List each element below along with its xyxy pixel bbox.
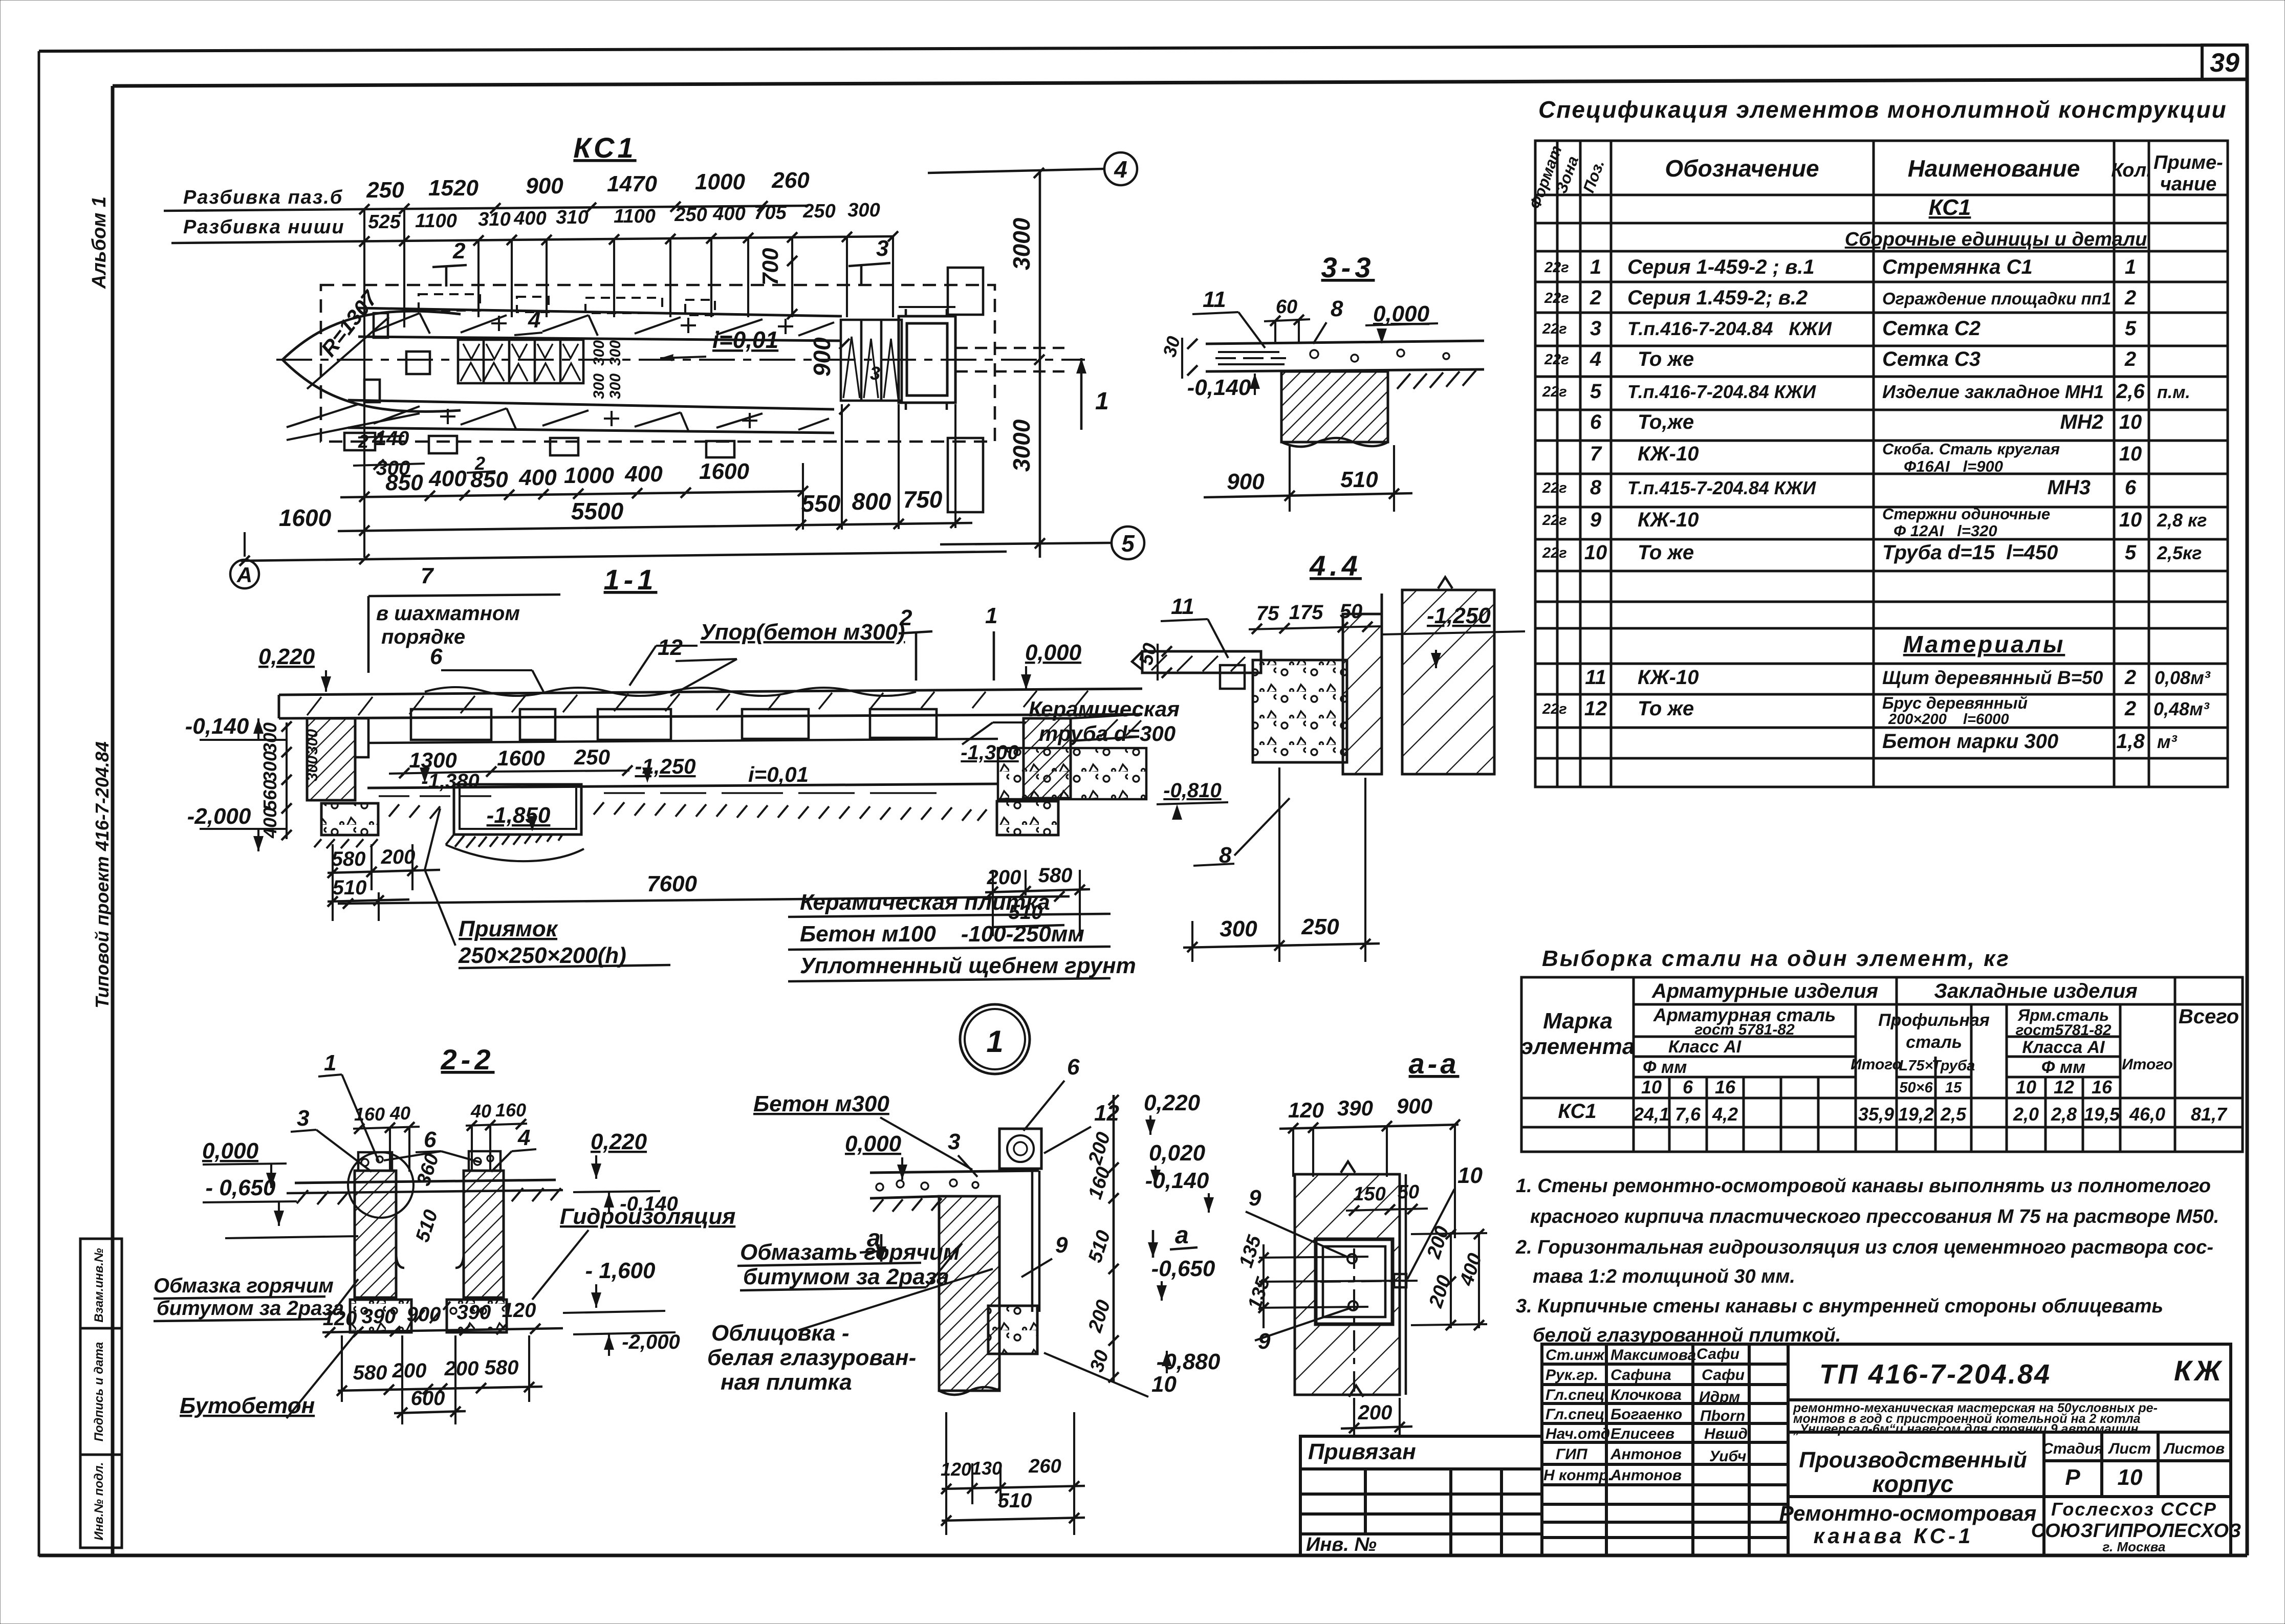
svg-text:-1,850: -1,850 — [487, 803, 551, 828]
formwork marks top band — [374, 313, 834, 336]
svg-text:300: 300 — [607, 374, 624, 399]
svg-text:Арматурные изделия: Арматурные изделия — [1651, 980, 1878, 1002]
svg-text:19,2: 19,2 — [1898, 1104, 1934, 1125]
svg-text:м³: м³ — [2157, 731, 2178, 752]
svg-text:300: 300 — [847, 200, 880, 221]
svg-text:Идрм: Идрм — [1699, 1389, 1740, 1406]
small square under bar — [1220, 665, 1245, 689]
ground hatch right of wall — [1397, 370, 1476, 389]
svg-text:10: 10 — [2118, 1465, 2143, 1490]
svg-text:0,000: 0,000 — [1025, 640, 1082, 665]
strip speckles — [1310, 349, 1449, 362]
svg-text:Производственный: Производственный — [1799, 1447, 2027, 1473]
privyazan box — [1300, 1436, 1542, 1555]
page number box 39 — [2202, 45, 2247, 79]
svg-text:300: 300 — [259, 722, 280, 753]
svg-text:4: 4 — [517, 1125, 530, 1150]
svg-text:битумом за 2раза: битумом за 2раза — [157, 1297, 344, 1320]
svg-text:г. Москва: г. Москва — [2103, 1539, 2166, 1554]
extension verticals for lower dims — [245, 404, 955, 557]
vertical dim 3000/3000 — [1039, 171, 1041, 558]
svg-text:а: а — [1175, 1222, 1189, 1249]
svg-text:Облицовка -: Облицовка - — [711, 1321, 850, 1346]
left edge of slab — [278, 695, 280, 718]
svg-text:битумом за 2раза: битумом за 2раза — [743, 1264, 949, 1289]
brick wall 3-3 — [1281, 371, 1388, 442]
svg-text:400: 400 — [259, 807, 280, 839]
svg-text:Обмазка горячим: Обмазка горячим — [154, 1275, 334, 1297]
svg-text:2: 2 — [452, 238, 466, 264]
axis line to circle 5 — [940, 543, 1111, 544]
svg-text:Керамическая плитка: Керамическая плитка — [800, 890, 1050, 915]
svg-text:10: 10 — [2119, 509, 2142, 531]
svg-text:Ф мм: Ф мм — [2041, 1058, 2085, 1077]
svg-text:5: 5 — [2125, 541, 2137, 564]
concrete block 4-4 — [1253, 660, 1347, 762]
svg-text:1470: 1470 — [607, 171, 657, 196]
svg-text:Бетон марки 300: Бетон марки 300 — [1882, 730, 2058, 753]
svg-text:Т.п.416-7-204.84 КЖИ: Т.п.416-7-204.84 КЖИ — [1627, 318, 1832, 339]
svg-text:Бетон м100 -100-250мм: Бетон м100 -100-250мм — [800, 921, 1084, 947]
svg-text:Ф 12АІ l=320: Ф 12АІ l=320 — [1894, 522, 1997, 540]
svg-text:2: 2 — [2124, 666, 2136, 689]
svg-text:3: 3 — [297, 1106, 309, 1131]
svg-text:2: 2 — [474, 453, 485, 474]
svg-text:750: 750 — [903, 486, 943, 513]
5500 dim row — [571, 486, 943, 524]
svg-text:Гл.спец.: Гл.спец. — [1546, 1387, 1609, 1403]
svg-text:3. Кирпичные стены канавы с вн: 3. Кирпичные стены канавы с внутренней с… — [1516, 1296, 2163, 1317]
svg-text:Привязан: Привязан — [1308, 1439, 1416, 1464]
svg-text:22г: 22г — [1544, 259, 1569, 276]
steel table grid — [1521, 977, 2243, 1152]
svg-text:-0,140: -0,140 — [185, 714, 249, 739]
svg-text:Ф16АІ l=900: Ф16АІ l=900 — [1904, 457, 2003, 475]
svg-text:Гослесхоз СССР: Гослесхоз СССР — [2051, 1499, 2217, 1520]
svg-text:Пborn: Пborn — [1700, 1408, 1745, 1424]
outer border top — [39, 45, 2247, 51]
svg-text:10: 10 — [2119, 411, 2142, 433]
svg-text:Выборка стали на один элемент,: Выборка стали на один элемент, кг — [1542, 946, 2010, 971]
svg-text:400: 400 — [518, 465, 557, 490]
walls 2-2 — [355, 1171, 396, 1298]
svg-text:ТП 416-7-204.84: ТП 416-7-204.84 — [1819, 1359, 2051, 1390]
right face lines — [1399, 1174, 1401, 1395]
svg-text:3: 3 — [1590, 317, 1601, 340]
slab hatch marks — [307, 691, 1088, 715]
svg-text:160: 160 — [495, 1100, 526, 1121]
svg-text:Серия 1-459-2 ; в.1: Серия 1-459-2 ; в.1 — [1627, 256, 1815, 278]
svg-text:-1,300: -1,300 — [961, 741, 1018, 764]
svg-text:3: 3 — [948, 1129, 960, 1154]
rotated dims column — [1113, 1095, 1115, 1381]
wood beam block — [999, 1129, 1041, 1169]
svg-text:10: 10 — [1584, 541, 1607, 564]
svg-text:580: 580 — [1038, 864, 1073, 887]
svg-text:1000: 1000 — [564, 463, 614, 488]
svg-text:- 1,600: - 1,600 — [585, 1258, 656, 1283]
centre axis of plan — [276, 359, 1085, 361]
svg-text:Брус деревянный: Брус деревянный — [1882, 694, 2028, 712]
svg-text:0,000: 0,000 — [202, 1138, 259, 1164]
pit under-hatch — [446, 835, 562, 848]
svg-text:1100: 1100 — [614, 206, 656, 227]
svg-text:510: 510 — [998, 1489, 1032, 1512]
svg-text:КС1: КС1 — [1929, 195, 1971, 220]
leader lines from leaf — [287, 404, 420, 440]
svg-text:гост5781-82: гост5781-82 — [2015, 1022, 2111, 1039]
svg-text:400: 400 — [624, 462, 663, 487]
svg-text:10: 10 — [1457, 1163, 1483, 1188]
left foundation block — [321, 803, 378, 835]
svg-text:Класса АІ: Класса АІ — [2022, 1038, 2105, 1057]
left wall hatched — [307, 718, 355, 800]
ground surface — [295, 1180, 556, 1183]
svg-text:Сетка С2: Сетка С2 — [1882, 317, 1981, 340]
svg-text:Труба d=15 l=450: Труба d=15 l=450 — [1882, 541, 2058, 564]
svg-text:250×250×200(h): 250×250×200(h) — [458, 943, 626, 968]
svg-text:Класс АІ: Класс АІ — [1668, 1037, 1742, 1057]
svg-text:чание: чание — [2160, 173, 2217, 195]
svg-text:Ф мм: Ф мм — [1643, 1058, 1687, 1077]
svg-text:Обмазать горячим: Обмазать горячим — [740, 1240, 960, 1265]
floor strip node — [870, 1171, 1039, 1198]
svg-text:Типовой проект 416-7-204.84: Типовой проект 416-7-204.84 — [92, 741, 113, 1008]
svg-text:Упор(бетон м300): Упор(бетон м300) — [700, 620, 905, 645]
svg-text:1: 1 — [324, 1050, 336, 1076]
svg-text:300: 300 — [591, 340, 607, 366]
dim row 1 numbers — [366, 168, 810, 203]
svg-text:Стадия: Стадия — [2042, 1440, 2103, 1457]
svg-text:Подпись и дата: Подпись и дата — [92, 1342, 106, 1442]
svg-text:КС1: КС1 — [573, 131, 636, 164]
svg-text:22г: 22г — [1542, 545, 1567, 561]
svg-text:1100: 1100 — [415, 210, 457, 232]
svg-text:А: А — [236, 563, 252, 587]
svg-text:Сафина: Сафина — [1611, 1367, 1671, 1384]
svg-text:130: 130 — [971, 1458, 1002, 1479]
svg-text:1600: 1600 — [699, 459, 749, 484]
svg-text:-0,650: -0,650 — [1151, 1256, 1215, 1281]
svg-text:300: 300 — [591, 374, 607, 399]
svg-text:250: 250 — [574, 745, 610, 769]
svg-text:2,5: 2,5 — [1940, 1104, 1967, 1125]
svg-text:900: 900 — [1227, 469, 1265, 494]
dims 120 390 900 390 120 — [323, 1299, 536, 1330]
svg-text:35,9: 35,9 — [1858, 1104, 1894, 1125]
svg-text:0,08м³: 0,08м³ — [2155, 667, 2211, 688]
left horizontal bar (element 11) — [1142, 651, 1261, 673]
steel table texts — [1521, 980, 2239, 1125]
svg-text:красного кирпича пластического: красного кирпича пластического прессован… — [1530, 1206, 2219, 1227]
svg-text:КС1: КС1 — [1558, 1100, 1596, 1123]
svg-text:2,5кг: 2,5кг — [2157, 542, 2202, 563]
svg-text:16: 16 — [1715, 1077, 1736, 1098]
svg-text:200×200 l=6000: 200×200 l=6000 — [1888, 711, 2009, 728]
svg-text:ная плитка: ная плитка — [721, 1370, 852, 1395]
svg-text:81,7: 81,7 — [2191, 1104, 2228, 1125]
window (niche) — [1316, 1239, 1392, 1324]
svg-text:2. Горизонтальная гидроизоляци: 2. Горизонтальная гидроизоляция из слоя … — [1515, 1237, 2213, 1258]
svg-text:Щит деревянный В=50: Щит деревянный В=50 — [1882, 667, 2103, 688]
floor strip — [1206, 341, 1484, 371]
svg-text:22г: 22г — [1542, 701, 1567, 717]
leaf shape (canal end, R=1307) — [282, 311, 461, 360]
formwork panel block (shields) — [458, 340, 583, 383]
svg-text:0,220: 0,220 — [258, 644, 315, 669]
section mark 1 (arrow up) — [1080, 358, 1083, 430]
svg-text:0,48м³: 0,48м³ — [2153, 698, 2210, 719]
svg-text:12: 12 — [2054, 1077, 2074, 1098]
svg-text:300: 300 — [304, 756, 321, 781]
svg-text:Взам.инв.№: Взам.инв.№ — [92, 1248, 106, 1323]
right side dashed connectors — [955, 348, 1064, 371]
svg-text:11: 11 — [1585, 666, 1606, 689]
node bottom break — [939, 1387, 999, 1395]
svg-text:КЖ-10: КЖ-10 — [1638, 666, 1699, 689]
end elevation window block — [899, 307, 955, 403]
svg-text:-0,140: -0,140 — [1145, 1168, 1209, 1193]
svg-text:22г: 22г — [1542, 480, 1567, 496]
svg-text:Закладные изделия: Закладные изделия — [1934, 980, 2137, 1002]
svg-text:Изделие закладное МН1: Изделие закладное МН1 — [1882, 381, 2104, 402]
centre dashes — [1353, 1248, 1355, 1407]
svg-text:Итого: Итого — [1851, 1056, 1902, 1073]
axis line to circle 4 — [928, 169, 1103, 173]
svg-text:а-а: а-а — [1409, 1047, 1460, 1080]
node wall hatched — [939, 1196, 999, 1391]
svg-text:10: 10 — [1641, 1077, 1662, 1098]
svg-text:39: 39 — [2210, 48, 2239, 78]
svg-text:19,5: 19,5 — [2084, 1104, 2120, 1125]
svg-text:705: 705 — [754, 202, 787, 224]
dims 75 175 50 — [1256, 600, 1363, 625]
svg-text:0,020: 0,020 — [1149, 1140, 1206, 1166]
pit (priyamok) — [454, 784, 581, 835]
svg-text:Всего: Всего — [2179, 1005, 2239, 1028]
plan top wall band — [358, 308, 842, 341]
svg-text:40: 40 — [389, 1103, 410, 1124]
svg-text:Бетон м300: Бетон м300 — [753, 1091, 889, 1116]
svg-text:400: 400 — [513, 208, 546, 229]
svg-text:сталь: сталь — [1906, 1033, 1962, 1052]
svg-text:4,2: 4,2 — [1712, 1104, 1738, 1125]
lower concrete block — [988, 1306, 1037, 1354]
svg-text:Гидроизоляция: Гидроизоляция — [560, 1204, 735, 1229]
svg-text:900: 900 — [526, 173, 563, 199]
node circle 1 — [960, 1004, 1030, 1074]
svg-text:8: 8 — [1590, 476, 1602, 499]
outer border left — [38, 51, 40, 1556]
svg-text:0,220: 0,220 — [591, 1129, 647, 1154]
left small hatch block on wall start — [374, 313, 388, 338]
svg-text:1. Стены ремонтно-осмотровой к: 1. Стены ремонтно-осмотровой канавы выпо… — [1516, 1175, 2211, 1197]
svg-text:900: 900 — [809, 337, 835, 377]
svg-text:600: 600 — [411, 1387, 445, 1410]
svg-text:2: 2 — [2124, 348, 2136, 370]
end block feet — [906, 309, 947, 410]
svg-text:порядке: порядке — [381, 626, 465, 648]
svg-text:250: 250 — [674, 204, 707, 226]
svg-text:140: 140 — [375, 427, 409, 450]
svg-text:1520: 1520 — [428, 175, 478, 201]
svg-text:КЖ-10: КЖ-10 — [1638, 509, 1699, 531]
svg-text:Наименование: Наименование — [1908, 155, 2080, 182]
svg-text:0,220: 0,220 — [1144, 1090, 1201, 1115]
svg-text:3-3: 3-3 — [1321, 251, 1375, 283]
svg-text:Н контр.: Н контр. — [1543, 1467, 1613, 1484]
svg-text:800: 800 — [852, 488, 891, 515]
svg-text:9: 9 — [1055, 1233, 1068, 1258]
svg-text:580: 580 — [332, 848, 366, 870]
svg-text:9: 9 — [1258, 1329, 1271, 1354]
svg-text:150: 150 — [1353, 1183, 1385, 1205]
formwork marks bottom band — [374, 406, 829, 432]
svg-text:2: 2 — [1590, 287, 1601, 309]
svg-text:10: 10 — [1151, 1372, 1177, 1397]
svg-text:1600: 1600 — [497, 746, 545, 770]
svg-text:канава КС-1: канава КС-1 — [1814, 1524, 1974, 1548]
right protruding walls — [948, 268, 983, 315]
title block — [1542, 1344, 2231, 1555]
svg-text:75: 75 — [1256, 602, 1279, 625]
svg-text:50: 50 — [1398, 1181, 1419, 1203]
svg-text:1300: 1300 — [409, 748, 456, 772]
svg-text:550: 550 — [801, 490, 841, 517]
left bottom side stamp — [80, 1239, 122, 1548]
svg-text:Елисеев: Елисеев — [1611, 1425, 1674, 1442]
svg-text:22г: 22г — [1544, 290, 1569, 306]
svg-text:2,0: 2,0 — [2013, 1104, 2039, 1125]
svg-text:-1,250: -1,250 — [635, 754, 695, 778]
svg-text:1600: 1600 — [279, 504, 332, 531]
svg-text:200: 200 — [987, 866, 1021, 889]
plan bottom wall band — [348, 400, 834, 433]
svg-text:3: 3 — [870, 363, 880, 384]
notes — [1515, 1175, 2219, 1346]
svg-text:700: 700 — [758, 248, 783, 286]
svg-text:16: 16 — [2092, 1077, 2113, 1098]
svg-text:22г: 22г — [1544, 352, 1569, 368]
niche rectangles bottom (solid small) — [344, 433, 734, 457]
svg-text:Сетка С3: Сетка С3 — [1882, 348, 1981, 370]
svg-text:24,1: 24,1 — [1633, 1104, 1669, 1125]
svg-text:7: 7 — [421, 563, 434, 588]
small square left inside channel — [406, 352, 430, 374]
svg-text:Антонов: Антонов — [1610, 1446, 1682, 1463]
svg-text:Лист: Лист — [2108, 1440, 2151, 1457]
svg-text:2: 2 — [2124, 697, 2136, 720]
svg-text:Инв. №: Инв. № — [1306, 1534, 1377, 1555]
svg-text:2,6: 2,6 — [2116, 380, 2145, 403]
svg-text:Сборочные единицы и детали: Сборочные единицы и детали — [1845, 229, 2147, 250]
svg-text:1: 1 — [986, 1024, 1003, 1059]
svg-text:6: 6 — [1067, 1055, 1080, 1080]
bottom dims 580 200 200 580 — [353, 1356, 519, 1384]
svg-text:120: 120 — [1288, 1098, 1324, 1122]
svg-text:60: 60 — [1276, 296, 1297, 318]
svg-text:900: 900 — [1397, 1094, 1432, 1118]
column axis circle 4 — [1104, 152, 1137, 185]
svg-text:3000: 3000 — [1008, 419, 1035, 472]
svg-text:Разбивка паз.б: Разбивка паз.б — [183, 187, 343, 208]
uzel circle on left wall — [348, 1152, 414, 1218]
svg-text:То же: То же — [1638, 348, 1694, 370]
svg-text:Кол.: Кол. — [2111, 160, 2151, 181]
top small dims 160 40 | 40 160 — [354, 1100, 526, 1125]
svg-text:Богаенко: Богаенко — [1611, 1406, 1682, 1423]
svg-text:Сафи: Сафи — [1696, 1346, 1739, 1363]
niche dim line — [340, 491, 803, 497]
top dims 120 390 900 — [1288, 1094, 1432, 1122]
svg-text:Спецификация элементов монолит: Спецификация элементов монолитной констр… — [1538, 96, 2227, 123]
svg-text:1,8: 1,8 — [2116, 730, 2145, 753]
svg-text:525: 525 — [368, 211, 401, 233]
svg-text:40: 40 — [470, 1101, 491, 1122]
plank zigzag on slab — [425, 687, 916, 696]
300 stack labels — [591, 340, 624, 399]
svg-text:Т.п.415-7-204.84 КЖИ: Т.п.415-7-204.84 КЖИ — [1627, 477, 1816, 498]
big hatched wall a-a — [1295, 1174, 1400, 1395]
svg-text:250: 250 — [802, 201, 835, 222]
svg-text:0,000: 0,000 — [1373, 301, 1430, 326]
right wall hatched + foundation — [1024, 718, 1071, 798]
svg-text:4.4: 4.4 — [1309, 550, 1362, 582]
svg-text:в шахматном: в шахматном — [376, 602, 520, 625]
svg-text:510: 510 — [1340, 467, 1378, 492]
svg-text:- 0,650: - 0,650 — [206, 1175, 276, 1200]
svg-text:4: 4 — [1590, 348, 1601, 370]
svg-text:10: 10 — [2119, 443, 2142, 465]
svg-text:50×6: 50×6 — [1899, 1080, 1933, 1096]
svg-text:560: 560 — [259, 780, 280, 810]
svg-text:1: 1 — [985, 603, 997, 628]
svg-text:Р: Р — [2065, 1465, 2080, 1490]
svg-text:тава 1:2 толщиной 30 мм.: тава 1:2 толщиной 30 мм. — [1533, 1266, 1795, 1287]
svg-text:i=0,01: i=0,01 — [712, 326, 778, 353]
column axis circle 5 — [1112, 526, 1144, 559]
svg-text:4: 4 — [1114, 156, 1127, 183]
svg-text:Приямок: Приямок — [459, 916, 559, 941]
svg-text:КЖ: КЖ — [2174, 1354, 2224, 1387]
svg-text:Антонов: Антонов — [1610, 1467, 1682, 1484]
svg-text:1: 1 — [2125, 256, 2136, 278]
svg-text:12: 12 — [1584, 697, 1607, 720]
svg-text:элемента: элемента — [1521, 1034, 1635, 1059]
svg-text:6: 6 — [1683, 1077, 1693, 1098]
svg-text:Приме-: Приме- — [2153, 152, 2223, 173]
svg-text:6: 6 — [424, 1127, 437, 1152]
svg-text:3000: 3000 — [1008, 217, 1035, 270]
svg-text:гост 5781-82: гост 5781-82 — [1694, 1021, 1795, 1038]
svg-text:4: 4 — [528, 308, 540, 333]
svg-text:белая глазурован-: белая глазурован- — [707, 1345, 916, 1370]
svg-text:5500: 5500 — [571, 498, 624, 524]
svg-text:12: 12 — [658, 635, 683, 660]
svg-text:0,000: 0,000 — [845, 1131, 902, 1156]
svg-text:Стержни одиночные: Стержни одиночные — [1882, 505, 2050, 523]
svg-text:2-2: 2-2 — [441, 1043, 495, 1076]
svg-text:22г: 22г — [1542, 512, 1567, 529]
svg-text:Профильная: Профильная — [1878, 1011, 1990, 1030]
svg-text:Материалы: Материалы — [1903, 631, 2065, 657]
svg-text:12: 12 — [1094, 1101, 1119, 1126]
element 11 in strip (dashes) — [1215, 352, 1286, 364]
svg-text:580: 580 — [485, 1356, 519, 1379]
svg-text:3: 3 — [876, 236, 888, 261]
svg-text:Скоба. Сталь круглая: Скоба. Сталь круглая — [1882, 440, 2060, 458]
svg-text:МН2: МН2 — [2060, 411, 2103, 433]
